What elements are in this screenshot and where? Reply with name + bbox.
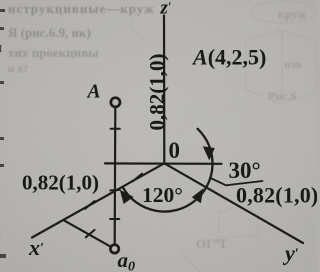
svg-text:30°: 30° bbox=[229, 158, 261, 183]
svg-text:A(4,2,5): A(4,2,5) bbox=[191, 45, 266, 70]
svg-text:Я (рис.6.9, ик): Я (рис.6.9, ик) bbox=[8, 25, 91, 40]
svg-text:о: о bbox=[0, 106, 1, 122]
svg-text:ОГºТ: ОГºТ bbox=[196, 236, 228, 251]
svg-text:120°: 120° bbox=[142, 183, 183, 207]
svg-text:0,82(1,0): 0,82(1,0) bbox=[22, 171, 99, 195]
svg-text:нструкцивные—круж: нструкцивные—круж bbox=[8, 1, 155, 16]
svg-text:0: 0 bbox=[169, 138, 181, 163]
svg-text:круж: круж bbox=[278, 7, 306, 21]
svg-text:изо: изо bbox=[284, 57, 302, 71]
svg-text:0,82(1,0): 0,82(1,0) bbox=[145, 54, 169, 131]
svg-text:м: м bbox=[0, 40, 2, 56]
svg-text:0,82(1,0): 0,82(1,0) bbox=[236, 183, 317, 208]
svg-text:и д?: и д? bbox=[8, 63, 28, 75]
svg-text:A: A bbox=[86, 82, 101, 103]
svg-text:хих проекцивы: хих проекцивы bbox=[8, 45, 98, 60]
